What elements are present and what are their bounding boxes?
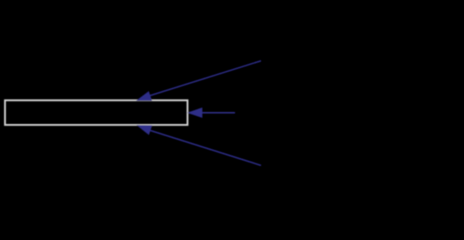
middle arrowhead	[187, 108, 202, 118]
bottom arrow line	[149, 130, 261, 165]
memory block rectangle	[5, 100, 188, 125]
top arrowhead	[136, 91, 152, 101]
top arrow line	[149, 61, 262, 96]
middle arrow line	[202, 112, 236, 114]
bottom arrowhead	[137, 125, 153, 135]
